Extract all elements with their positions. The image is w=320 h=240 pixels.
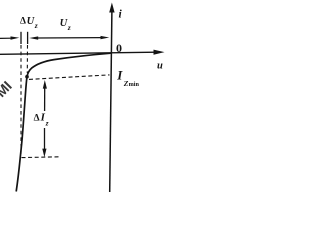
u-axis bbox=[0, 50, 165, 55]
svg-text:z: z bbox=[34, 21, 38, 30]
label IZmin bbox=[116, 68, 139, 88]
label dUz bbox=[20, 16, 38, 30]
dIz dimension arrow (vertical, two arrowheads) bbox=[42, 80, 47, 157]
dashed horizontal IZmin level bbox=[29, 75, 110, 80]
label Uz bbox=[60, 18, 71, 32]
Uz dimension line with outward arrowheads bbox=[29, 36, 109, 40]
dashed vertical line at -Uz bbox=[26, 45, 28, 73]
i-axis bbox=[109, 3, 114, 193]
label dIz bbox=[34, 112, 49, 128]
dimension tick marks bbox=[21, 32, 28, 44]
svg-text:z: z bbox=[45, 119, 49, 128]
dashed horizontal IZmax level bbox=[22, 156, 61, 159]
knee junction dot bbox=[25, 75, 29, 79]
svg-text:MI: MI bbox=[0, 78, 15, 100]
svg-text:Δ: Δ bbox=[20, 17, 26, 27]
zener curve bbox=[16, 53, 111, 191]
svg-text:u: u bbox=[157, 61, 163, 72]
watermark bbox=[0, 78, 15, 100]
svg-text:I: I bbox=[116, 68, 123, 83]
dashed vertical line at -(Uz+dUz) bbox=[20, 45, 22, 154]
svg-text:i: i bbox=[119, 9, 123, 21]
svg-text:z: z bbox=[67, 23, 71, 32]
svg-text:min: min bbox=[129, 81, 140, 88]
svg-text:Δ: Δ bbox=[34, 113, 40, 123]
dUz dimension arrow (left, pointing right) bbox=[0, 36, 19, 39]
svg-text:0: 0 bbox=[116, 41, 122, 55]
